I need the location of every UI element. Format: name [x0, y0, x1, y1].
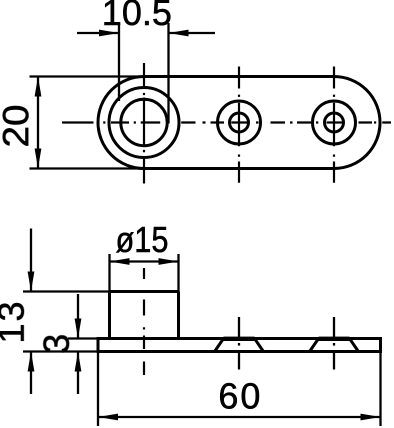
svg-text:13: 13 — [0, 299, 32, 343]
svg-text:20: 20 — [0, 105, 36, 148]
svg-text:10.5: 10.5 — [102, 0, 172, 33]
svg-text:3: 3 — [36, 334, 77, 354]
svg-text:ø15: ø15 — [116, 219, 169, 260]
svg-text:60: 60 — [218, 375, 262, 416]
